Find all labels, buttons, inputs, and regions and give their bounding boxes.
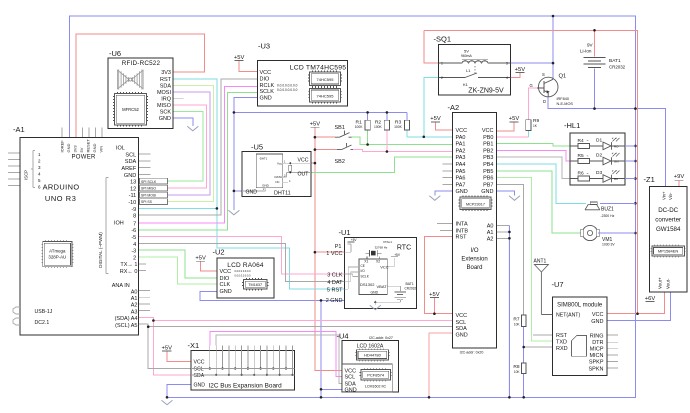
svg-text:VBAT: VBAT (377, 284, 388, 289)
svg-text:-HL1: -HL1 (564, 121, 580, 130)
svg-text:MFRC52: MFRC52 (122, 107, 139, 112)
svg-text:+5V: +5V (351, 238, 358, 242)
svg-text:Vout+: Vout+ (658, 277, 663, 289)
svg-text:RST: RST (556, 333, 568, 339)
svg-text:HD44780: HD44780 (364, 353, 382, 358)
svg-text:A0: A0 (131, 289, 138, 295)
svg-text:PA4: PA4 (456, 162, 466, 168)
svg-text:-A1: -A1 (13, 125, 25, 134)
svg-text:SPI MOSI: SPI MOSI (141, 193, 156, 197)
svg-text:0.0.0.0.0.0.0.0: 0.0.0.0.0.0.0.0 (277, 84, 298, 88)
svg-text:10K: 10K (514, 323, 521, 327)
svg-text:X2: X2 (376, 260, 380, 264)
svg-text:PA2: PA2 (456, 148, 466, 154)
svg-text:1: 1 (441, 62, 443, 66)
svg-text:PA6: PA6 (456, 176, 466, 182)
svg-text:960mA: 960mA (461, 54, 472, 58)
svg-text:SDA: SDA (160, 84, 172, 90)
svg-text:+5V: +5V (162, 345, 173, 351)
svg-text:AREF: AREF (121, 166, 137, 172)
svg-text:SPKN: SPKN (589, 366, 604, 372)
svg-text:+5V: +5V (310, 122, 321, 128)
svg-text:BAT1: BAT1 (609, 58, 621, 64)
svg-text:N-E-MOS: N-E-MOS (557, 102, 574, 106)
svg-text:A3: A3 (131, 309, 138, 315)
svg-text:Extension: Extension (461, 257, 487, 263)
svg-text:Vcc: Vcc (277, 162, 283, 166)
svg-text:GND: GND (481, 189, 493, 195)
svg-text:GN: GN (614, 160, 619, 164)
svg-text:IOL: IOL (116, 146, 125, 152)
svg-text:SCL: SCL (456, 320, 467, 326)
svg-text:GW1584: GW1584 (656, 226, 681, 233)
svg-text:RO: RO (614, 144, 619, 148)
svg-text:+5V: +5V (394, 253, 401, 257)
svg-text:-DHT1: -DHT1 (259, 156, 268, 160)
svg-text:MP1584EN: MP1584EN (658, 249, 679, 254)
svg-text:RTC: RTC (397, 245, 411, 252)
svg-text:+5V: +5V (429, 292, 440, 298)
svg-text:LCD RA064: LCD RA064 (227, 262, 264, 269)
svg-text:UNO R3: UNO R3 (45, 194, 77, 203)
svg-text:GND: GND (456, 332, 468, 338)
svg-text:PA0: PA0 (456, 135, 466, 141)
svg-text:PCF8574: PCF8574 (367, 372, 385, 377)
svg-text:MICP: MICP (590, 347, 604, 353)
svg-text:2 GND: 2 GND (326, 298, 343, 304)
svg-text:D: D (543, 99, 546, 104)
svg-text:-U2: -U2 (213, 248, 225, 257)
svg-text:+5V: +5V (234, 55, 245, 61)
svg-text:VCC: VCC (456, 313, 468, 319)
svg-text:100K: 100K (355, 125, 364, 129)
svg-text:PB3: PB3 (483, 155, 493, 161)
svg-text:PA3: PA3 (456, 155, 466, 161)
svg-text:SDA: SDA (456, 326, 468, 332)
svg-text:PB7: PB7 (483, 182, 493, 188)
svg-text:-5: -5 (131, 235, 136, 241)
svg-text:TM1637: TM1637 (248, 283, 262, 287)
svg-text:GND: GND (456, 189, 468, 195)
svg-text:-X1: -X1 (188, 341, 200, 350)
svg-text:VCC: VCC (482, 128, 494, 134)
svg-text:I/O: I/O (361, 269, 366, 273)
svg-text:3 CLK: 3 CLK (327, 272, 343, 278)
svg-text:XTAL1: XTAL1 (383, 240, 392, 244)
svg-text:PB2: PB2 (483, 148, 493, 154)
svg-text:X1: X1 (364, 260, 368, 264)
svg-text:3V3: 3V3 (161, 70, 171, 76)
svg-text:SDA: SDA (125, 159, 137, 165)
svg-text:7: 7 (133, 221, 136, 227)
svg-text:2: 2 (441, 76, 443, 80)
svg-text:DHT11: DHT11 (274, 191, 291, 197)
svg-text:DIGITAL (~PWM): DIGITAL (~PWM) (98, 232, 103, 268)
svg-text:MOSI: MOSI (157, 90, 172, 96)
svg-text:SCL: SCL (194, 367, 204, 373)
svg-text:-Z1: -Z1 (644, 175, 655, 184)
svg-text:VCC: VCC (592, 312, 604, 318)
svg-text:GND: GND (66, 144, 71, 153)
svg-text:PA1: PA1 (456, 142, 466, 148)
svg-text:SCLK: SCLK (361, 274, 370, 278)
svg-text:5V: 5V (79, 147, 84, 152)
svg-text:IOH: IOH (114, 221, 124, 227)
svg-text:GND: GND (194, 383, 206, 389)
svg-text:SB2: SB2 (335, 159, 345, 165)
svg-text:4: 4 (506, 76, 508, 80)
svg-text:ARDUINO: ARDUINO (43, 183, 80, 192)
svg-text:G: G (530, 83, 533, 88)
svg-text:-SQ1: -SQ1 (434, 35, 452, 44)
svg-text:ISCP: ISCP (24, 170, 29, 180)
svg-text:4 DAT: 4 DAT (327, 280, 343, 286)
svg-text:5V: 5V (464, 49, 469, 54)
svg-text:CE: CE (361, 264, 365, 268)
svg-text:-U1: -U1 (339, 228, 351, 237)
svg-text:SCL: SCL (345, 375, 356, 381)
svg-text:SPI SCLK: SPI SCLK (141, 180, 157, 184)
svg-text:MICN: MICN (589, 353, 603, 359)
svg-text:SB1: SB1 (335, 125, 345, 131)
svg-text:(SCL) A5: (SCL) A5 (115, 323, 137, 329)
svg-text:SPI SS: SPI SS (141, 200, 153, 204)
svg-text:GND: GND (124, 173, 136, 179)
svg-text:RFID-RC522: RFID-RC522 (122, 60, 161, 67)
svg-text:DS1302: DS1302 (360, 282, 375, 287)
svg-text:MISO: MISO (157, 103, 172, 109)
svg-text:-U4: -U4 (337, 332, 349, 341)
svg-text:POWER: POWER (72, 155, 97, 161)
svg-text:VCC: VCC (260, 70, 272, 76)
svg-text:LCM1602 IIC: LCM1602 IIC (365, 384, 387, 388)
svg-text:D2: D2 (596, 153, 602, 159)
svg-text:74HC595: 74HC595 (317, 77, 335, 82)
svg-text:GND: GND (262, 184, 270, 188)
svg-text:TX→ 1: TX→ 1 (120, 262, 137, 268)
svg-text:I/O: I/O (470, 248, 478, 254)
svg-text:SCL: SCL (125, 152, 136, 158)
svg-text:converter: converter (655, 217, 681, 224)
svg-text:8: 8 (133, 214, 136, 220)
svg-text:12: 12 (130, 186, 136, 192)
svg-text:RING: RING (590, 333, 604, 339)
svg-text:GND: GND (591, 319, 603, 325)
svg-text:CR2032: CR2032 (405, 287, 417, 291)
svg-text:74HC595: 74HC595 (317, 93, 335, 98)
svg-text:-9: -9 (131, 207, 136, 213)
svg-text:A1: A1 (131, 296, 138, 302)
svg-text:Li-Ion: Li-Ion (580, 49, 592, 54)
svg-text:CLK: CLK (220, 282, 231, 288)
svg-text:DIO: DIO (260, 76, 271, 82)
svg-text:BUZ1: BUZ1 (601, 207, 614, 213)
svg-text:IRF840: IRF840 (557, 97, 569, 101)
svg-text:SPI MISO: SPI MISO (141, 187, 156, 191)
svg-text:PB4: PB4 (483, 162, 493, 168)
svg-text:1 VCC: 1 VCC (326, 251, 342, 257)
svg-text:-U3: -U3 (258, 42, 270, 51)
svg-text:ANT1: ANT1 (534, 258, 547, 264)
svg-text:10K: 10K (514, 370, 521, 374)
svg-text:0.0.0.0.0.0.0.0: 0.0.0.0.0.0.0.0 (235, 275, 252, 278)
svg-text:RCLK: RCLK (260, 83, 275, 89)
svg-text:GND: GND (246, 190, 258, 196)
svg-text:+5V: +5V (430, 116, 441, 122)
svg-text:-U5: -U5 (251, 143, 263, 152)
svg-text:2: 2 (133, 255, 136, 261)
svg-text:3V3: 3V3 (73, 145, 78, 153)
svg-text:VCC: VCC (220, 269, 232, 275)
svg-text:-6: -6 (131, 228, 136, 234)
svg-text:RXD: RXD (556, 346, 568, 352)
svg-text:13: 13 (130, 180, 136, 186)
svg-text:-U6: -U6 (109, 49, 121, 58)
svg-text:DC2.1: DC2.1 (35, 320, 50, 326)
svg-text:A2: A2 (487, 236, 494, 242)
svg-text:-3: -3 (131, 249, 136, 255)
svg-text:TXD: TXD (556, 340, 567, 346)
svg-text:Q1: Q1 (559, 74, 567, 80)
svg-text:ATmega: ATmega (49, 249, 66, 254)
svg-text:GND: GND (92, 144, 97, 153)
svg-text:RX← 0: RX← 0 (120, 269, 138, 275)
svg-text:DATA: DATA (274, 175, 282, 179)
svg-text:GND: GND (159, 116, 171, 122)
svg-text:GND: GND (260, 96, 272, 102)
svg-text:INTA: INTA (456, 222, 468, 228)
svg-text:Vout-: Vout- (666, 278, 671, 289)
svg-text:328P-AU: 328P-AU (48, 255, 66, 260)
svg-text:P1: P1 (335, 244, 342, 250)
svg-text:(SDA) A4: (SDA) A4 (115, 316, 138, 322)
svg-text:RST: RST (160, 77, 172, 83)
svg-text:A1: A1 (487, 230, 494, 236)
svg-text:PA7: PA7 (456, 182, 466, 188)
svg-text:I2C Bus Expansion Board: I2C Bus Expansion Board (209, 382, 283, 389)
svg-text:100K: 100K (374, 125, 383, 129)
svg-text:+9V: +9V (674, 174, 685, 180)
svg-text:RESET: RESET (86, 139, 91, 153)
svg-text:VIN: VIN (99, 146, 104, 153)
svg-text:-A2: -A2 (448, 103, 460, 112)
svg-text:100K: 100K (394, 125, 403, 129)
svg-text:+5V: +5V (195, 256, 206, 262)
svg-text:SDA: SDA (194, 373, 205, 379)
svg-text:3: 3 (506, 62, 508, 66)
svg-text:A2: A2 (131, 303, 138, 309)
svg-text:S: S (542, 72, 545, 77)
svg-text:PB6: PB6 (483, 176, 493, 182)
svg-text:-11: -11 (129, 193, 137, 199)
svg-text:VCC: VCC (298, 158, 309, 164)
svg-text:LCD 1602A: LCD 1602A (357, 344, 384, 350)
svg-text:+5V: +5V (509, 116, 520, 122)
svg-text:Vin+: Vin+ (662, 191, 667, 200)
svg-text:PB5: PB5 (483, 169, 493, 175)
svg-text:I2C-addr: 0x20: I2C-addr: 0x20 (460, 351, 484, 355)
svg-text:-2300 Hz: -2300 Hz (601, 214, 615, 218)
svg-text:ANA IN: ANA IN (112, 283, 130, 289)
svg-text:1030 3V: 1030 3V (602, 242, 615, 246)
svg-text:4: 4 (133, 242, 136, 248)
svg-text:USB-1J: USB-1J (35, 309, 53, 315)
svg-text:VCC: VCC (194, 360, 205, 366)
svg-text:DTR: DTR (592, 340, 603, 346)
svg-text:R6: R6 (578, 171, 584, 177)
svg-text:PA5: PA5 (456, 169, 466, 175)
svg-text:Board: Board (466, 265, 482, 271)
svg-text:GND: GND (371, 291, 379, 295)
svg-text:SCLK: SCLK (260, 89, 275, 95)
svg-text:ZK-ZN9-5V: ZK-ZN9-5V (468, 88, 504, 95)
svg-text:RST: RST (456, 234, 468, 240)
svg-text:DC-DC: DC-DC (658, 207, 678, 214)
svg-text:GND: GND (345, 387, 357, 393)
svg-text:9V: 9V (587, 43, 594, 48)
svg-text:Vin-: Vin- (668, 192, 673, 200)
svg-text:0.0.0.0.0.0.0.0: 0.0.0.0.0.0.0.0 (235, 270, 252, 273)
svg-text:MCP23017: MCP23017 (466, 202, 485, 206)
svg-text:IRQ: IRQ (161, 97, 172, 103)
svg-text:VCC: VCC (456, 128, 468, 134)
svg-text:BAT1: BAT1 (406, 282, 414, 286)
svg-text:D3: D3 (596, 170, 602, 176)
svg-text:R5: R5 (578, 153, 584, 159)
svg-text:SIM800L module: SIM800L module (557, 303, 603, 309)
svg-text:BU: BU (614, 177, 618, 181)
svg-text:+5V: +5V (515, 67, 526, 73)
svg-text:R4: R4 (578, 138, 584, 144)
svg-text:D1: D1 (596, 137, 602, 143)
svg-text:A0: A0 (487, 224, 494, 230)
svg-text:GND: GND (220, 289, 232, 295)
svg-text:-10: -10 (128, 200, 136, 206)
svg-text:IOREF: IOREF (60, 140, 65, 153)
svg-text:LCD TM74HC595: LCD TM74HC595 (290, 64, 347, 71)
svg-text:5 RST: 5 RST (327, 288, 343, 294)
svg-text:NET(ANT): NET(ANT) (556, 313, 580, 319)
svg-text:CR2032: CR2032 (609, 65, 626, 70)
svg-text:K1: K1 (463, 82, 469, 87)
svg-text:SPKP: SPKP (589, 360, 604, 366)
svg-text:SCK: SCK (160, 110, 172, 116)
svg-text:PB0: PB0 (483, 135, 493, 141)
svg-text:NC: NC (275, 180, 279, 184)
svg-text:OUT: OUT (298, 171, 310, 177)
svg-text:0.0.0.0.0.0.0.0: 0.0.0.0.0.0.0.0 (277, 88, 298, 92)
svg-text:I2C-addr: 0x27: I2C-addr: 0x27 (369, 336, 393, 340)
svg-text:-U7: -U7 (552, 280, 564, 289)
svg-text:PB1: PB1 (483, 142, 493, 148)
svg-text:L1: L1 (466, 68, 471, 73)
svg-text:32768 Hz: 32768 Hz (375, 246, 388, 250)
